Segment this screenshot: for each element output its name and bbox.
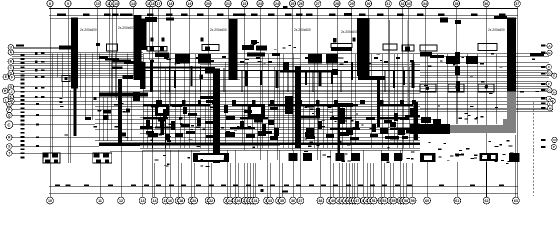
svg-text:S: S [8, 145, 10, 149]
svg-text:13: 13 [141, 199, 145, 203]
svg-text:33: 33 [268, 199, 272, 203]
svg-text:21: 21 [226, 2, 230, 6]
svg-text:31: 31 [254, 199, 258, 203]
svg-text:29: 29 [350, 2, 354, 6]
svg-text:53: 53 [382, 199, 386, 203]
svg-text:31: 31 [386, 2, 390, 6]
svg-text:13: 13 [114, 2, 118, 6]
svg-text:E: E [5, 75, 7, 79]
svg-text:51: 51 [372, 199, 376, 203]
svg-text:L: L [549, 102, 551, 106]
svg-text:18: 18 [169, 2, 173, 6]
svg-text:63: 63 [514, 199, 518, 203]
svg-text:19: 19 [188, 2, 192, 6]
svg-text:37: 37 [299, 199, 303, 203]
svg-text:35: 35 [280, 199, 284, 203]
svg-text:F: F [11, 76, 13, 80]
svg-text:E: E [553, 74, 555, 78]
svg-text:10: 10 [96, 2, 100, 6]
svg-text:33: 33 [407, 2, 411, 6]
svg-text:40: 40 [331, 199, 335, 203]
svg-text:12: 12 [119, 199, 123, 203]
svg-text:N: N [553, 138, 555, 142]
svg-text:38: 38 [318, 199, 322, 203]
svg-text:35: 35 [455, 2, 459, 6]
svg-text:30: 30 [367, 2, 371, 6]
svg-text:2x-200x600: 2x-200x600 [341, 30, 358, 34]
svg-text:18: 18 [179, 199, 183, 203]
svg-text:61: 61 [455, 199, 459, 203]
svg-text:36: 36 [291, 199, 295, 203]
svg-text:37: 37 [515, 2, 519, 6]
svg-text:59: 59 [411, 199, 415, 203]
svg-text:55: 55 [392, 199, 396, 203]
svg-text:22: 22 [243, 2, 247, 6]
svg-text:26: 26 [299, 2, 303, 6]
svg-text:L: L [5, 98, 7, 102]
svg-text:20: 20 [206, 2, 210, 6]
svg-text:22: 22 [209, 199, 213, 203]
svg-text:10: 10 [48, 199, 52, 203]
svg-text:J: J [11, 90, 13, 94]
svg-text:8: 8 [49, 2, 51, 6]
svg-text:9: 9 [67, 2, 69, 6]
svg-text:24: 24 [275, 2, 279, 6]
svg-text:28: 28 [335, 2, 339, 6]
svg-text:25: 25 [291, 2, 295, 6]
svg-text:36: 36 [484, 2, 488, 6]
svg-text:2x-200x600: 2x-200x600 [294, 28, 311, 32]
svg-text:47: 47 [355, 199, 359, 203]
svg-text:14: 14 [131, 2, 135, 6]
svg-text:16: 16 [168, 199, 172, 203]
svg-text:26: 26 [237, 199, 241, 203]
svg-text:P: P [553, 145, 555, 149]
svg-text:16: 16 [151, 2, 155, 6]
svg-text:62: 62 [485, 199, 489, 203]
svg-text:34: 34 [423, 2, 427, 6]
svg-text:2x-200x600: 2x-200x600 [488, 28, 505, 32]
svg-text:32: 32 [401, 2, 405, 6]
svg-text:T: T [8, 152, 10, 156]
svg-text:2x-200x600: 2x-200x600 [80, 28, 97, 32]
svg-text:27: 27 [316, 2, 320, 6]
svg-text:60: 60 [425, 199, 429, 203]
svg-text:23: 23 [258, 2, 262, 6]
svg-text:2x-200x600: 2x-200x600 [118, 26, 135, 30]
svg-text:11: 11 [98, 199, 102, 203]
svg-text:20: 20 [192, 199, 196, 203]
svg-text:F: F [548, 82, 550, 86]
svg-text:2x-200x600: 2x-200x600 [210, 28, 227, 32]
svg-text:17: 17 [157, 2, 161, 6]
svg-text:H: H [553, 91, 555, 95]
svg-text:58: 58 [404, 199, 408, 203]
svg-text:14: 14 [153, 199, 157, 203]
svg-text:24: 24 [228, 199, 232, 203]
